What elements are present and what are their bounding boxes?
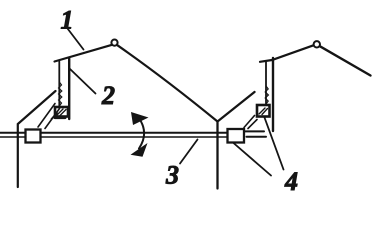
left bracket clamp box (hatched block) bbox=[55, 107, 68, 117]
right marker arm bbox=[320, 46, 371, 75]
shaft top line right stub bbox=[244, 130, 264, 132]
svg-text:2: 2 bbox=[101, 81, 115, 110]
right leg hatch squiggle bbox=[265, 86, 268, 104]
right link diagonal upper bbox=[244, 116, 255, 128]
leader line for label 3 bbox=[180, 140, 198, 164]
svg-text:4: 4 bbox=[284, 167, 298, 196]
right link diagonal lower bbox=[248, 120, 257, 129]
left bent rod (down-left then vertical to ground) bbox=[18, 91, 56, 187]
right clamp inner hatch bbox=[259, 108, 265, 114]
left bracket right leg bbox=[68, 59, 70, 120]
shaft top line main span bbox=[41, 132, 228, 134]
shaft bottom line left stub bbox=[0, 136, 26, 138]
rotation arrow top head bbox=[131, 112, 149, 125]
left leg hatch squiggle bbox=[59, 82, 62, 106]
left marker arm (long diagonal to junction) bbox=[118, 45, 218, 121]
shaft bottom line main span bbox=[41, 136, 228, 138]
central shaft clamp box bbox=[228, 129, 245, 143]
left clamp inner hatch 2 bbox=[60, 110, 66, 116]
leader line B for label 4 bbox=[234, 143, 272, 176]
svg-text:3: 3 bbox=[165, 161, 179, 190]
shaft bottom line right stub bbox=[247, 136, 267, 138]
left bracket left leg bbox=[58, 62, 60, 109]
left link diagonal lower bbox=[45, 109, 60, 129]
right clamp inner hatch 2 bbox=[262, 109, 268, 115]
shaft top line left stub bbox=[0, 132, 26, 134]
left clamp bottom blob bbox=[55, 116, 65, 119]
left bracket roof bar bbox=[55, 45, 113, 62]
leader line for label 1 bbox=[68, 29, 84, 50]
right bent rod (diagonal from right bracket to junction then vertical) bbox=[218, 92, 255, 189]
left shaft clamp box bbox=[26, 130, 41, 143]
leader line for label 2 bbox=[70, 69, 96, 94]
right bracket right leg bbox=[272, 58, 274, 131]
rotation arrow arc bbox=[139, 119, 144, 149]
left clamp tick bbox=[52, 113, 58, 119]
right bracket roof bar bbox=[260, 45, 314, 62]
svg-text:1: 1 bbox=[61, 6, 74, 35]
rotation arrow bottom head bbox=[131, 143, 148, 157]
right hinge circle bbox=[314, 41, 320, 47]
right bracket clamp box (hatched block) bbox=[257, 105, 270, 117]
right bracket left leg bbox=[265, 62, 267, 106]
leader line A for label 4 bbox=[265, 118, 284, 170]
left clamp inner hatch bbox=[57, 109, 63, 115]
left hinge circle bbox=[111, 40, 117, 46]
left link diagonal upper bbox=[38, 104, 55, 128]
